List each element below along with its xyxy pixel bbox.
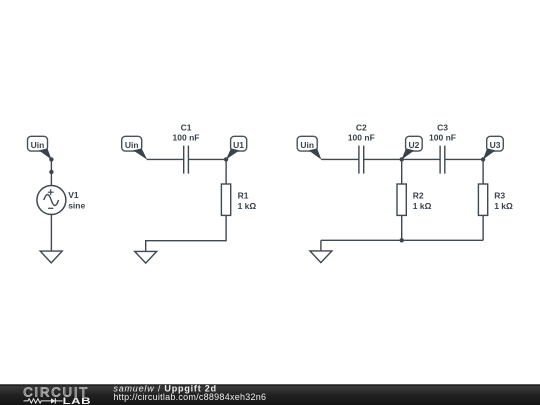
wire C3 right plate to U3 node: [445, 158, 483, 160]
svg-text:sine: sine: [68, 201, 85, 211]
junction dot U2 node: [400, 157, 404, 161]
svg-text:R2: R2: [413, 191, 424, 201]
net flag Uin (middle): [122, 136, 148, 159]
wire R2 bottom to bottom rail: [401, 215, 403, 240]
svg-text:http://circuitlab.com/c88984xe: http://circuitlab.com/c88984xeh32n6: [113, 392, 266, 402]
ground (right circuit): [310, 251, 332, 263]
label R2 1 kOhm: [413, 191, 432, 211]
wire bottom rail to ground: [320, 240, 322, 251]
CircuitLab logo: [23, 384, 91, 405]
net flag U3: [483, 136, 503, 159]
wire Uin to C2 left plate: [321, 158, 359, 160]
junction dot U1 node: [224, 157, 228, 161]
svg-text:U3: U3: [490, 140, 501, 150]
svg-text:Uin: Uin: [300, 140, 314, 150]
svg-text:100 nF: 100 nF: [348, 132, 375, 142]
capacitor C2: [359, 146, 364, 174]
wire U2 node down to R2: [401, 159, 403, 184]
capacitor C3: [440, 146, 445, 174]
svg-text:Uin: Uin: [125, 140, 139, 150]
label C3 100 nF: [429, 123, 456, 143]
ground (R1): [135, 251, 157, 263]
resistor R3: [478, 184, 487, 215]
junction dot at Uin flag node: [49, 157, 53, 161]
svg-text:1 kΩ: 1 kΩ: [413, 201, 432, 211]
svg-text:Uin: Uin: [31, 140, 45, 150]
voltage source V1 (sine): [37, 186, 66, 215]
wire Uin to C1 left plate: [147, 158, 184, 160]
svg-text:LAB: LAB: [63, 397, 92, 405]
wire R3 bottom to bottom rail: [482, 215, 484, 240]
svg-text:R3: R3: [494, 191, 505, 201]
junction dot at V1 top node: [49, 170, 53, 174]
wire V1 bottom to ground: [50, 214, 52, 251]
svg-text:C3: C3: [437, 123, 448, 133]
svg-text:100 nF: 100 nF: [173, 132, 200, 142]
svg-text:C1: C1: [181, 123, 192, 133]
svg-text:1 kΩ: 1 kΩ: [238, 201, 257, 211]
footer bar: [0, 384, 540, 405]
wire to V1 top terminal: [50, 172, 52, 186]
net flag Uin (left, at V1): [28, 136, 52, 159]
label C2 100 nF: [348, 123, 375, 143]
label R1 1 kOhm: [238, 191, 257, 211]
net flag U2: [402, 136, 423, 159]
junction dot U3 node: [481, 157, 485, 161]
label C1 100 nF: [173, 123, 200, 143]
wire R1 bottom to ground: [146, 215, 226, 251]
label R3 1 kOhm: [494, 191, 513, 211]
net flag U1: [226, 136, 247, 159]
label V1 sine: [68, 190, 85, 210]
svg-text:V1: V1: [68, 190, 79, 200]
svg-text:100 nF: 100 nF: [429, 132, 456, 142]
svg-text:C2: C2: [356, 123, 367, 133]
svg-text:U2: U2: [408, 140, 419, 150]
resistor R2: [397, 184, 406, 215]
resistor R1: [221, 184, 230, 215]
junction dot bottom rail: [400, 238, 404, 242]
svg-text:R1: R1: [238, 191, 249, 201]
capacitor C1: [184, 146, 189, 174]
wire U3 node down to R3: [482, 159, 484, 184]
wire C2 right plate to U2 node: [364, 158, 402, 160]
svg-text:U1: U1: [233, 140, 244, 150]
wire U1 node down to R1: [225, 159, 227, 184]
net flag Uin (right): [297, 136, 321, 159]
ground (V1): [40, 251, 62, 263]
wire bottom rail horizontal: [321, 239, 483, 241]
wire C1 right plate to U1 node: [188, 158, 226, 160]
svg-text:1 kΩ: 1 kΩ: [494, 201, 513, 211]
wire flag node to V1 node: [50, 159, 52, 172]
wire U2 node to C3 left plate: [402, 158, 440, 160]
